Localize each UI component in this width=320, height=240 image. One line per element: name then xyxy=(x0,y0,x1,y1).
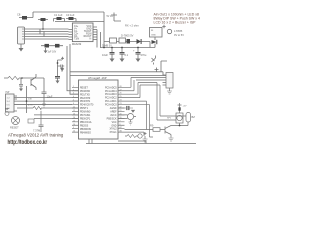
svg-text:4: 4 xyxy=(73,96,74,98)
svg-text:19: 19 xyxy=(120,117,122,119)
svg-text:R9: R9 xyxy=(150,124,154,128)
svg-text:T1IN: T1IN xyxy=(74,39,79,41)
svg-text:RESET: RESET xyxy=(10,126,19,130)
svg-text:15: 15 xyxy=(73,120,75,122)
svg-text:14: 14 xyxy=(73,117,75,119)
svg-text:PD2/INT0: PD2/INT0 xyxy=(80,98,91,100)
svg-text:PC4-ADC4: PC4-ADC4 xyxy=(105,90,117,93)
svg-text:20: 20 xyxy=(120,113,122,115)
svg-text:PD7/AIN1: PD7/AIN1 xyxy=(80,114,91,117)
svg-text:0.1: 0.1 xyxy=(125,53,129,57)
svg-text:3: 3 xyxy=(73,93,74,95)
svg-text:C3 1uF: C3 1uF xyxy=(66,13,75,17)
svg-text:PC1-ADC1: PC1-ADC1 xyxy=(105,100,117,103)
svg-text:470u: 470u xyxy=(141,53,147,57)
svg-text:2: 2 xyxy=(73,89,74,91)
svg-text:6: 6 xyxy=(73,103,74,105)
svg-text:VCC: VCC xyxy=(112,122,117,124)
svg-text:5V 1A: 5V 1A xyxy=(107,15,114,18)
svg-text:PD3/INT1: PD3/INT1 xyxy=(80,101,91,103)
svg-text:PC0-ADC0: PC0-ADC0 xyxy=(105,104,117,107)
svg-text:ATmega8 V2012 AVR training: ATmega8 V2012 AVR training xyxy=(8,133,64,138)
svg-text:AVCC: AVCC xyxy=(110,114,117,117)
svg-text:1uF 16V: 1uF 16V xyxy=(48,51,57,53)
svg-text:21: 21 xyxy=(120,110,122,112)
svg-text:27: 27 xyxy=(120,89,122,91)
svg-text:22: 22 xyxy=(120,107,122,109)
svg-text:10uF: 10uF xyxy=(47,95,53,99)
svg-text:12: 12 xyxy=(73,110,75,112)
svg-text:5: 5 xyxy=(73,100,74,102)
svg-text:9V to 5V: 9V to 5V xyxy=(174,33,184,37)
svg-text:AGND: AGND xyxy=(110,107,117,110)
svg-text:PC5-ADC5: PC5-ADC5 xyxy=(105,86,117,89)
svg-text:PD5/T1: PD5/T1 xyxy=(80,108,89,110)
svg-text:10: 10 xyxy=(73,131,75,133)
svg-text:8: 8 xyxy=(120,124,121,126)
svg-text:ISP: ISP xyxy=(6,91,10,94)
svg-text:LCD 16 x 2 + Buzzer + ISP: LCD 16 x 2 + Buzzer + ISP xyxy=(154,20,197,24)
svg-text:PB3/MOSI: PB3/MOSI xyxy=(80,129,91,131)
svg-text:PD4/XCK/T0: PD4/XCK/T0 xyxy=(80,105,94,107)
svg-text:XTAL1: XTAL1 xyxy=(110,131,118,134)
svg-text:PB1/OC1A: PB1/OC1A xyxy=(80,121,92,124)
svg-text:XTAL2: XTAL2 xyxy=(110,128,118,131)
svg-text:GND: GND xyxy=(151,35,156,37)
svg-text:PB5/SCK: PB5/SCK xyxy=(107,118,117,120)
svg-text:A6: A6 xyxy=(120,130,122,133)
svg-text:13: 13 xyxy=(73,113,75,115)
svg-text:GND: GND xyxy=(111,125,116,127)
svg-text:10uF: 10uF xyxy=(102,53,108,57)
svg-text:AREF: AREF xyxy=(110,110,117,113)
svg-text:http://todbox.co.kr: http://todbox.co.kr xyxy=(7,139,47,146)
svg-text:D-MB 5V: D-MB 5V xyxy=(102,44,112,47)
svg-text:9: 9 xyxy=(73,127,74,129)
svg-text:D-7805 5V: D-7805 5V xyxy=(121,33,134,37)
svg-text:24: 24 xyxy=(120,100,122,102)
svg-text:PC3-ADC3: PC3-ADC3 xyxy=(105,93,117,96)
svg-text:L7805: L7805 xyxy=(174,29,183,33)
svg-text:+5V: +5V xyxy=(183,106,187,108)
svg-text:23: 23 xyxy=(120,103,122,105)
svg-text:25: 25 xyxy=(120,96,122,98)
svg-text:S2: S2 xyxy=(5,107,9,111)
svg-text:ATmega8 -16P: ATmega8 -16P xyxy=(88,76,107,80)
svg-text:26: 26 xyxy=(120,93,122,95)
svg-text:V-: V- xyxy=(89,39,91,41)
svg-text:PD0/RXD: PD0/RXD xyxy=(80,91,90,93)
svg-text:11: 11 xyxy=(73,107,75,109)
svg-text:16: 16 xyxy=(73,124,75,126)
svg-text:C1 1uF: C1 1uF xyxy=(54,13,63,17)
svg-text:4.7K: 4.7K xyxy=(28,105,33,107)
svg-text:PD6/AIN0: PD6/AIN0 xyxy=(80,111,91,114)
svg-text:C8: C8 xyxy=(17,13,21,17)
svg-text:28: 28 xyxy=(120,86,122,88)
svg-text:BZ: BZ xyxy=(192,115,196,119)
svg-text:PC2-ADC2: PC2-ADC2 xyxy=(105,97,117,100)
svg-text:A7: A7 xyxy=(120,126,122,129)
svg-text:10K: 10K xyxy=(28,99,32,101)
svg-text:7: 7 xyxy=(120,120,121,122)
svg-text:PD1/TXD: PD1/TXD xyxy=(80,94,90,96)
svg-text:PB0/ICP1: PB0/ICP1 xyxy=(80,118,91,120)
svg-text:RESET: RESET xyxy=(80,87,88,89)
svg-text:MAX232: MAX232 xyxy=(72,43,82,46)
svg-text:RX + 2 ohm: RX + 2 ohm xyxy=(125,23,139,27)
svg-text:PB2/SS: PB2/SS xyxy=(80,125,89,127)
svg-text:PB4/MISO: PB4/MISO xyxy=(80,132,91,134)
svg-text:1: 1 xyxy=(73,86,74,88)
